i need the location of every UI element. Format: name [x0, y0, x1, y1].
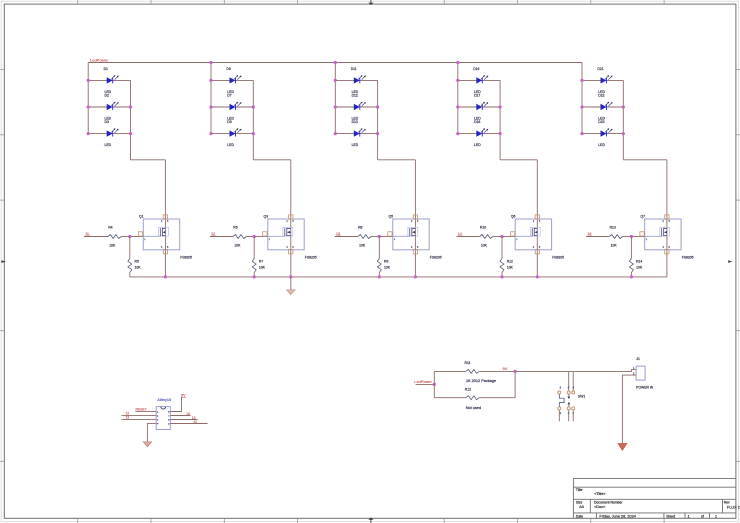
pin numbers mosfet block 2 — [269, 221, 295, 249]
pin numbers mosfet block 4 — [516, 221, 541, 249]
svg-text:10K: 10K — [259, 265, 266, 269]
svg-text:FS8205: FS8205 — [552, 255, 564, 259]
junction right rail row 2 block 3 — [376, 105, 379, 108]
wire LED row 2 block 1 — [88, 106, 130, 108]
svg-text:13: 13 — [126, 416, 130, 420]
center marker top edge — [368, 3, 373, 6]
junction 5V node — [514, 370, 517, 373]
svg-text:POWER IN: POWER IN — [636, 386, 654, 390]
wire gate junction to mosfet block 2 — [254, 236, 268, 238]
wire drain vertical block 4 — [536, 160, 538, 277]
junction right rail row 2 block 5 — [622, 105, 625, 108]
svg-text:FS8205: FS8205 — [180, 255, 192, 259]
pin square source block 1 — [163, 250, 167, 254]
svg-text:R11: R11 — [465, 361, 471, 365]
pin square source block 4 — [535, 250, 539, 254]
wire resistor to gate junction block 4 — [493, 236, 502, 238]
wire jog LED column to drain block 3 — [378, 159, 416, 161]
wire pin3 left — [122, 418, 157, 420]
svg-text:12: 12 — [211, 232, 215, 236]
junction ground rail source block 3 — [414, 275, 417, 278]
svg-text:Not used: Not used — [466, 406, 481, 410]
svg-text:FS8205: FS8205 — [430, 255, 442, 259]
resistor R5 pulldown — [128, 237, 132, 277]
zone tick marks left edge — [0, 70, 4, 462]
svg-text:R4: R4 — [108, 226, 112, 230]
svg-text:Q1: Q1 — [139, 215, 144, 219]
wire LED row 1 block 4 — [458, 79, 500, 81]
svg-text:FS8205: FS8205 — [305, 255, 317, 259]
switch pin numbers — [560, 386, 575, 416]
svg-text:D2: D2 — [105, 94, 109, 98]
zone tick marks top edge — [78, 0, 664, 4]
resistor R6 series gate — [233, 235, 247, 239]
svg-text:Q3: Q3 — [264, 215, 269, 219]
svg-text:Q6: Q6 — [511, 215, 516, 219]
wire gate junction to mosfet block 1 — [130, 236, 144, 238]
wire LedPower stub — [416, 383, 435, 385]
junction right rail row 2 block 4 — [499, 105, 502, 108]
wire jog LED column to drain block 1 — [131, 159, 166, 161]
pin square drain block 1 — [163, 215, 167, 219]
wire parallel resistor right vertical — [514, 371, 516, 397]
svg-text:R9: R9 — [384, 260, 388, 264]
mosfet body Q6 outline — [515, 219, 551, 250]
resistor R9 pulldown — [377, 237, 381, 277]
junction ground rail source block 1 — [164, 275, 167, 278]
mosfet symbol block 5 — [645, 227, 670, 236]
center marker right edge — [728, 260, 732, 263]
svg-text:D23: D23 — [598, 120, 604, 124]
wire ground rail — [130, 276, 667, 278]
svg-text:LED: LED — [105, 143, 112, 147]
wire switch stub b — [572, 371, 574, 390]
wire gate junction to mosfet block 4 — [502, 236, 515, 238]
svg-text:Document Number: Document Number — [594, 500, 623, 504]
svg-text:Q5: Q5 — [389, 215, 394, 219]
svg-text:D21: D21 — [597, 67, 603, 71]
junction gate block 5 — [630, 235, 633, 238]
svg-text:1: 1 — [688, 514, 690, 518]
mosfet body Q5 outline — [393, 219, 429, 250]
svg-text:10K: 10K — [611, 243, 618, 247]
svg-text:Title: Title — [576, 488, 583, 492]
wire parallel resistor left vertical — [433, 371, 435, 397]
wire R11 branch right — [479, 370, 515, 372]
wire jog LED column to drain block 4 — [500, 159, 537, 161]
wire gate net stub block 2 — [210, 236, 233, 238]
wire LED row 2 block 2 — [211, 106, 253, 108]
mosfet symbol block 2 — [268, 227, 293, 236]
wire LED column right rail block 5 — [622, 80, 624, 159]
svg-text:Attiny15: Attiny15 — [157, 398, 171, 402]
svg-text:1: 1 — [715, 514, 717, 518]
junction gate block 4 — [500, 235, 503, 238]
svg-text:<Doc>: <Doc> — [594, 505, 606, 509]
svg-text:R10: R10 — [480, 226, 486, 230]
svg-text:13: 13 — [336, 232, 340, 236]
svg-text:D12: D12 — [352, 94, 358, 98]
pin numbers J1 — [633, 367, 635, 376]
pin square source block 5 — [665, 250, 669, 254]
pin numbers mosfet block 5 — [646, 221, 671, 249]
wire R11 branch left — [434, 370, 465, 372]
junction ground rail pulldown block 3 — [378, 275, 381, 278]
svg-text:10K: 10K — [507, 265, 514, 269]
svg-text:LED: LED — [227, 143, 234, 147]
resistor R4 series gate — [108, 235, 122, 239]
junction right rail row 3 block 1 — [129, 132, 132, 135]
wire pin5 right — [170, 423, 207, 425]
center marker bottom edge — [368, 517, 373, 520]
junction LedPower vertical — [433, 383, 436, 386]
wire gnd pin left — [147, 423, 156, 441]
junction ground rail source block 4 — [536, 275, 539, 278]
junction LedPower rail block 4 — [456, 61, 459, 64]
wire LED row 3 block 4 — [458, 133, 500, 135]
resistor R7 pulldown — [252, 237, 256, 277]
resistor R11 — [466, 369, 480, 373]
svg-text:R8: R8 — [358, 226, 362, 230]
wire R12 branch left — [434, 397, 465, 399]
svg-text:R6: R6 — [233, 226, 237, 230]
led diode D21 — [601, 75, 613, 84]
wire drain vertical block 2 — [290, 160, 292, 277]
junction left rail row 2 block 2 — [209, 105, 212, 108]
wire drain vertical block 1 — [164, 160, 166, 277]
led diode D1 — [107, 75, 119, 84]
junction left rail row 2 block 4 — [456, 105, 459, 108]
junction gate block 1 — [128, 235, 131, 238]
svg-text:5V: 5V — [181, 394, 186, 398]
mosfet body Q1 outline — [143, 219, 179, 250]
svg-text:R12: R12 — [507, 260, 513, 264]
svg-text:10K: 10K — [384, 265, 391, 269]
wire switch lower stub 3 — [572, 410, 574, 421]
junction left rail row 3 block 1 — [87, 132, 90, 135]
wire LED row 1 block 2 — [211, 79, 253, 81]
svg-text:5V: 5V — [503, 366, 508, 371]
svg-text:10K: 10K — [359, 243, 366, 247]
junction left rail row 1 block 4 — [456, 79, 459, 82]
svg-text:R12: R12 — [465, 388, 471, 392]
resistor R10 series gate — [479, 235, 493, 239]
svg-text:A3: A3 — [579, 505, 584, 509]
junction ground rail pulldown block 5 — [630, 275, 633, 278]
mosfet symbol block 4 — [515, 227, 540, 236]
wire gate net stub block 5 — [586, 236, 609, 238]
zone tick marks bottom edge — [78, 518, 664, 523]
led diode D17 — [476, 102, 488, 111]
junction left rail row 1 block 1 — [87, 79, 90, 82]
wire switch lower stub 2 — [568, 410, 570, 421]
pin square drain block 4 — [535, 215, 539, 219]
zone tick marks right edge — [736, 70, 740, 462]
svg-text:D7: D7 — [227, 94, 231, 98]
pin square drain block 5 — [665, 215, 669, 219]
wire gate junction to mosfet block 5 — [631, 236, 644, 238]
svg-text:FLUX C: FLUX C — [727, 506, 740, 510]
wire drain vertical block 5 — [666, 160, 668, 277]
wire LED column left rail block 2 — [210, 63, 212, 134]
pin square drain block 3 — [413, 215, 417, 219]
svg-text:10K: 10K — [234, 243, 241, 247]
mosfet body Q7 outline — [645, 219, 681, 250]
pin numbers mosfet block 3 — [394, 221, 419, 249]
junction right rail row 3 block 2 — [252, 132, 255, 135]
svg-text:D1: D1 — [104, 67, 108, 71]
wire resistor to gate junction block 3 — [371, 236, 379, 238]
wire switch lower stub 1 — [558, 410, 560, 421]
svg-text:R13: R13 — [610, 226, 616, 230]
pin square source block 3 — [413, 250, 417, 254]
svg-text:Sheet: Sheet — [666, 514, 675, 518]
pin square gate block 1 — [138, 232, 142, 236]
svg-text:Friday, June 28, 2024: Friday, June 28, 2024 — [599, 514, 635, 518]
pin square gate block 2 — [263, 232, 267, 236]
wire vcc pin to 5V — [170, 397, 181, 411]
resistor R13 series gate — [609, 235, 623, 239]
wire J1 pin2 to ground — [622, 375, 636, 443]
wire LED column right rail block 3 — [377, 80, 379, 159]
wire LED row 2 block 4 — [458, 106, 500, 108]
wire LedPower horizontal rail — [88, 62, 582, 64]
junction ground rail source block 2 — [289, 275, 292, 278]
svg-text:D22: D22 — [598, 94, 604, 98]
ground symbol main rail — [287, 277, 296, 295]
wire jog LED column to drain block 2 — [253, 159, 290, 161]
junction left rail row 3 block 2 — [209, 132, 212, 135]
svg-text:J1: J1 — [636, 357, 640, 361]
wire LED row 1 block 1 — [88, 79, 130, 81]
resistor R12 — [466, 396, 480, 400]
wire LED column left rail block 5 — [581, 63, 583, 134]
junction LedPower rail block 2 — [209, 61, 212, 64]
svg-text:D8: D8 — [227, 120, 231, 124]
svg-text:10K: 10K — [636, 265, 643, 269]
mosfet symbol block 3 — [393, 227, 418, 236]
led diode D18 — [476, 128, 488, 137]
pin square drain block 2 — [289, 215, 293, 219]
svg-text:D11: D11 — [351, 67, 357, 71]
junction right rail row 3 block 5 — [622, 132, 625, 135]
wire gate net stub block 3 — [335, 236, 358, 238]
ground symbol attiny — [143, 442, 151, 447]
svg-text:LED: LED — [474, 143, 481, 147]
wire LED column left rail block 3 — [334, 63, 336, 134]
wire LED column right rail block 2 — [252, 80, 254, 159]
wire pin7 right — [170, 415, 190, 417]
svg-text:LedPower: LedPower — [90, 57, 109, 62]
led diode D22 — [601, 102, 613, 111]
junction LedPower rail block 3 — [334, 61, 337, 64]
junction left rail row 1 block 5 — [580, 79, 583, 82]
svg-text:11: 11 — [194, 420, 198, 424]
resistor R12 pulldown — [500, 237, 504, 277]
wire resistor to gate junction block 2 — [246, 236, 254, 238]
mosfet symbol block 1 — [143, 227, 168, 236]
wire reset pin — [136, 410, 157, 412]
svg-text:<Title>: <Title> — [594, 492, 606, 496]
junction ground rail pulldown block 2 — [253, 275, 256, 278]
svg-text:LedPower: LedPower — [414, 379, 432, 384]
svg-text:14: 14 — [458, 232, 462, 236]
svg-text:LED: LED — [598, 143, 605, 147]
resistor R8 series gate — [358, 235, 372, 239]
junction left rail row 1 block 2 — [209, 79, 212, 82]
junction right rail row 2 block 2 — [252, 105, 255, 108]
junction left rail row 2 block 5 — [580, 105, 583, 108]
junction ground rail pulldown block 4 — [500, 275, 503, 278]
wire LED column right rail block 4 — [499, 80, 501, 159]
svg-text:D13: D13 — [352, 120, 358, 124]
svg-text:D18: D18 — [474, 120, 480, 124]
svg-text:Rev: Rev — [724, 500, 730, 504]
svg-text:RESET: RESET — [136, 408, 147, 412]
wire gate junction to mosfet block 3 — [379, 236, 393, 238]
wire gate net stub block 4 — [457, 236, 480, 238]
led diode D13 — [354, 128, 366, 137]
led diode D8 — [230, 128, 242, 137]
wire resistor to gate junction block 1 — [121, 236, 130, 238]
junction left rail row 1 block 3 — [334, 79, 337, 82]
svg-text:D6: D6 — [226, 67, 230, 71]
led diode D23 — [601, 128, 613, 137]
svg-text:Size: Size — [576, 500, 583, 504]
wire LED row 1 block 3 — [335, 79, 377, 81]
ground symbol power input — [618, 444, 627, 451]
svg-text:D17: D17 — [474, 94, 480, 98]
pin numbers attiny — [157, 411, 170, 425]
led diode D16 — [476, 75, 488, 84]
title block texts — [576, 488, 740, 518]
led diode D6 — [230, 75, 242, 84]
pin square gate block 4 — [511, 232, 515, 236]
svg-text:D16: D16 — [473, 67, 479, 71]
svg-text:Q7: Q7 — [640, 215, 645, 219]
svg-text:1K 2012 Package: 1K 2012 Package — [466, 379, 496, 383]
wire LED row 3 block 5 — [582, 133, 623, 135]
center marker left edge — [1, 260, 5, 263]
title block frame — [573, 478, 736, 518]
svg-text:10K: 10K — [109, 243, 116, 247]
svg-text:R7: R7 — [259, 260, 263, 264]
wire LED row 3 block 2 — [211, 133, 253, 135]
svg-text:LED: LED — [352, 143, 359, 147]
wire R12 branch right — [479, 397, 515, 399]
svg-text:of: of — [701, 514, 704, 518]
junction left rail row 2 block 1 — [87, 105, 90, 108]
wire switch stub a — [568, 371, 570, 390]
wire pin6 right — [170, 419, 197, 421]
led diode D2 — [107, 102, 119, 111]
wire pin2 left — [122, 414, 157, 416]
svg-text:10: 10 — [186, 412, 190, 416]
led diode D7 — [230, 102, 242, 111]
wire LED row 2 block 5 — [582, 106, 623, 108]
wire 5V rail to connector — [515, 370, 636, 372]
mosfet body Q3 outline — [268, 219, 304, 250]
led diode D12 — [354, 102, 366, 111]
pin numbers mosfet block 1 — [144, 221, 169, 249]
wire LED column left rail block 4 — [457, 63, 459, 134]
wire LED row 1 block 5 — [582, 79, 623, 81]
svg-text:10K: 10K — [135, 265, 142, 269]
pin square source block 2 — [289, 250, 293, 254]
junction right rail row 3 block 4 — [499, 132, 502, 135]
wire LED column left rail block 1 — [87, 63, 89, 134]
junction gate block 3 — [378, 235, 381, 238]
wire jog LED column to drain block 5 — [623, 159, 667, 161]
junction left rail row 3 block 5 — [580, 132, 583, 135]
wire LED column right rail block 1 — [130, 80, 132, 159]
svg-text:11: 11 — [85, 232, 89, 236]
svg-text:10K: 10K — [481, 243, 488, 247]
wire LED row 3 block 1 — [88, 133, 130, 135]
wire LED row 3 block 3 — [335, 133, 377, 135]
wire LED row 2 block 3 — [335, 106, 377, 108]
svg-text:Date: Date — [576, 514, 583, 518]
pin square gate block 3 — [388, 232, 392, 236]
wire drain vertical block 3 — [414, 160, 416, 277]
junction gate block 2 — [253, 235, 256, 238]
svg-text:R5: R5 — [135, 260, 139, 264]
ic notch — [161, 407, 166, 409]
junction right rail row 3 block 3 — [376, 132, 379, 135]
junction left rail row 3 block 4 — [456, 132, 459, 135]
resistor R14 pulldown — [629, 237, 633, 277]
svg-text:SW1: SW1 — [578, 394, 585, 398]
junction left rail row 3 block 3 — [334, 132, 337, 135]
wire resistor to gate junction block 5 — [623, 236, 632, 238]
junction right rail row 2 block 1 — [129, 105, 132, 108]
wire gate net stub block 1 — [84, 236, 108, 238]
junction left rail row 2 block 3 — [334, 105, 337, 108]
svg-text:15: 15 — [587, 232, 591, 236]
ic U1 Attiny15 outline — [156, 407, 170, 430]
svg-text:FS8205: FS8205 — [682, 255, 694, 259]
svg-text:R14: R14 — [636, 260, 642, 264]
svg-text:D3: D3 — [105, 120, 109, 124]
led diode D3 — [107, 128, 119, 137]
pin square gate block 5 — [640, 232, 644, 236]
connector J1 outline — [636, 366, 645, 380]
led diode D11 — [354, 75, 366, 84]
switch SW1 — [558, 391, 575, 410]
